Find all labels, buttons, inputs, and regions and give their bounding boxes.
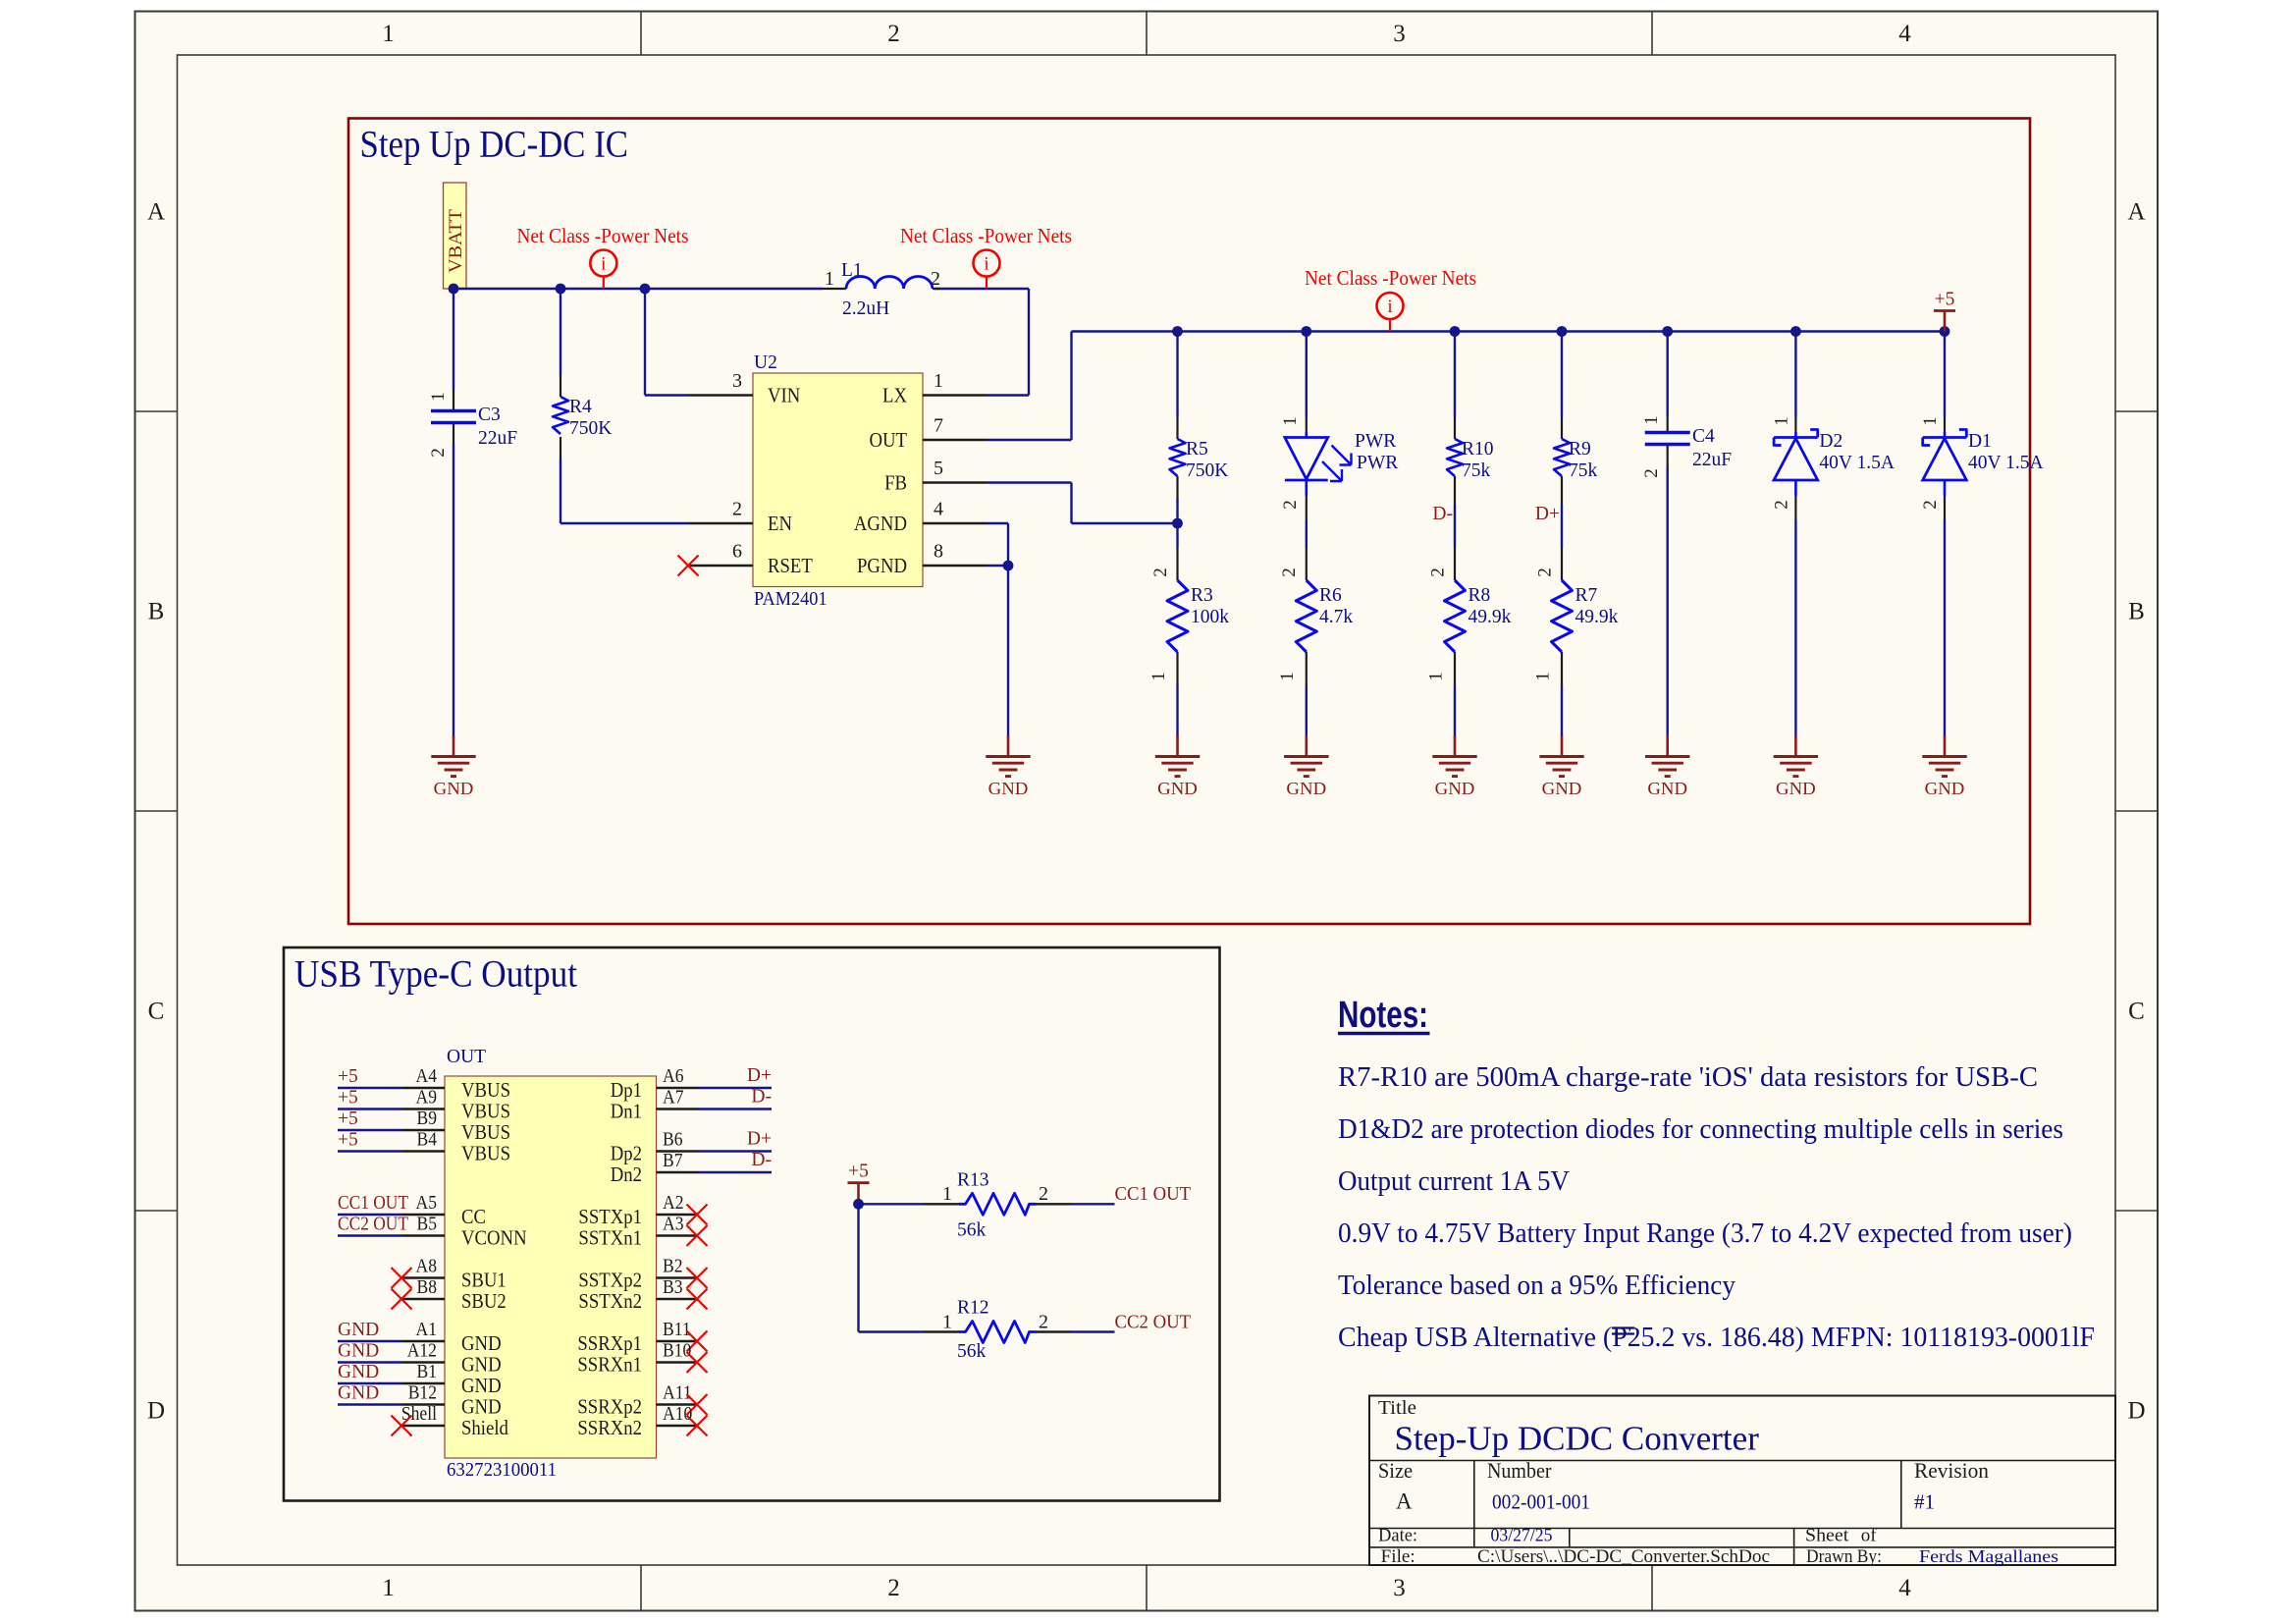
USB pin A3 SSTXn1 (578, 1214, 707, 1250)
svg-text:03/27/25: 03/27/25 (1491, 1526, 1553, 1546)
svg-text:2: 2 (1039, 1312, 1048, 1333)
svg-text:R12: R12 (957, 1298, 989, 1319)
svg-text:B4: B4 (417, 1129, 438, 1151)
svg-text:1: 1 (825, 268, 834, 290)
svg-text:EN: EN (768, 512, 792, 535)
svg-text:40V 1.5A: 40V 1.5A (1819, 453, 1895, 473)
svg-text:4: 4 (1898, 21, 1911, 47)
svg-text:GND: GND (461, 1374, 502, 1397)
svg-text:4.7k: 4.7k (1319, 607, 1353, 627)
svg-text:GND: GND (338, 1383, 379, 1404)
svg-text:40V 1.5A: 40V 1.5A (1968, 453, 2044, 473)
svg-text:D2: D2 (1819, 431, 1842, 452)
svg-text:6: 6 (732, 541, 742, 563)
svg-text:SSTXp2: SSTXp2 (578, 1269, 642, 1292)
svg-text:A12: A12 (407, 1340, 437, 1362)
svg-text:R10: R10 (1462, 439, 1494, 460)
svg-text:3: 3 (732, 370, 742, 392)
svg-text:22uF: 22uF (478, 428, 517, 449)
section box Step Up DC-DC IC (348, 119, 2030, 925)
capacitor C4 (1641, 415, 1732, 478)
svg-text:2: 2 (887, 21, 900, 47)
svg-text:2: 2 (931, 268, 940, 290)
svg-text:R3: R3 (1191, 585, 1213, 606)
svg-text:Net Class -Power Nets: Net Class -Power Nets (1305, 266, 1476, 290)
wire R7 to GND (1561, 684, 1563, 737)
ground for R6 (1284, 736, 1328, 799)
svg-text:GND: GND (338, 1320, 379, 1340)
USB pin A1 GND (338, 1319, 502, 1355)
svg-text:8: 8 (934, 541, 943, 563)
svg-text:RSET: RSET (768, 554, 813, 577)
svg-text:SSTXn1: SSTXn1 (578, 1226, 642, 1250)
ground for R8 (1432, 736, 1476, 799)
USB pin A10 SSRXn2 (577, 1403, 707, 1439)
wire VIN branch (645, 289, 689, 396)
svg-text:1: 1 (1426, 672, 1447, 681)
svg-text:A6: A6 (663, 1065, 684, 1087)
resistor R13 (924, 1170, 1071, 1241)
U2 pin 5 FB (923, 481, 987, 483)
svg-text:4: 4 (934, 499, 943, 520)
svg-text:R7: R7 (1575, 585, 1598, 606)
svg-text:GND: GND (1157, 779, 1198, 798)
ground for D1 (1922, 736, 1966, 799)
USB pin Shell Shield (392, 1403, 509, 1439)
wire LX to L1 (987, 394, 1029, 396)
U2 pin 4 AGND (923, 522, 987, 524)
svg-text:D-: D- (751, 1087, 772, 1108)
svg-text:2: 2 (1280, 500, 1301, 510)
svg-text:Date:: Date: (1378, 1527, 1417, 1546)
svg-text:C: C (148, 999, 165, 1025)
svg-text:i: i (601, 254, 606, 275)
svg-text:SSTXp1: SSTXp1 (578, 1205, 642, 1228)
wire LED to R6 (1306, 520, 1308, 548)
svg-text:D1: D1 (1968, 431, 1992, 452)
svg-text:1: 1 (942, 1183, 952, 1205)
svg-text:SBU2: SBU2 (461, 1289, 507, 1313)
svg-text:C3: C3 (478, 405, 501, 425)
diode D1 (1920, 332, 2044, 521)
svg-text:GND: GND (461, 1331, 502, 1355)
svg-text:750K: 750K (569, 418, 612, 439)
svg-text:D+: D+ (747, 1129, 772, 1150)
USB pin B7 Dn2 (611, 1150, 772, 1186)
IC U2 PAM2401 (678, 352, 988, 610)
svg-text:1: 1 (942, 1312, 952, 1333)
svg-text:C: C (2128, 999, 2145, 1025)
capacitor C3 (428, 390, 517, 458)
junction VIN branch (640, 284, 651, 295)
svg-text:GND: GND (461, 1395, 502, 1419)
USB pin B11 SSRXp1 (577, 1319, 707, 1355)
wire bus to C4 (1666, 332, 1668, 417)
svg-text:Net Class -Power Nets: Net Class -Power Nets (517, 224, 689, 247)
svg-text:Title: Title (1378, 1397, 1416, 1419)
wire R4 branch to EN (561, 289, 689, 523)
USB pin A9 VBUS (338, 1087, 510, 1123)
junction at VBATT pin (449, 284, 459, 295)
svg-text:FB: FB (884, 471, 907, 495)
resistor R6 (1277, 548, 1353, 684)
wire +5 to R13/R12 (859, 1204, 925, 1331)
svg-text:CC: CC (461, 1205, 486, 1228)
svg-text:56k: 56k (957, 1220, 987, 1241)
U2 pin 7 OUT (923, 439, 987, 441)
svg-text:1: 1 (1920, 416, 1941, 426)
svg-text:SSTXn2: SSTXn2 (578, 1289, 642, 1313)
LED PWR (1280, 416, 1398, 520)
svg-text:B10: B10 (663, 1340, 691, 1362)
svg-text:OUT: OUT (870, 428, 908, 452)
svg-text:USB Type-C Output: USB Type-C Output (294, 952, 577, 996)
svg-text:R4: R4 (569, 397, 592, 417)
svg-text:VCONN: VCONN (461, 1226, 527, 1250)
svg-text:VBUS: VBUS (461, 1142, 510, 1165)
wire C3 to GND (453, 289, 454, 737)
U2 pin 1 LX (923, 394, 987, 396)
resistor R7 (1533, 548, 1619, 684)
svg-text:R8: R8 (1468, 585, 1491, 606)
svg-text:1: 1 (428, 392, 449, 402)
svg-text:1: 1 (1771, 416, 1791, 426)
svg-text:+5: +5 (1935, 290, 1955, 310)
resistor R3 (1148, 548, 1229, 684)
ground for R7 (1539, 736, 1583, 799)
svg-text:D: D (2127, 1398, 2145, 1425)
svg-text:75k: 75k (1569, 460, 1598, 481)
svg-text:Ferds Magallanes: Ferds Magallanes (1919, 1546, 2058, 1566)
svg-text:GND: GND (1925, 779, 1965, 798)
USB pin B1 GND (338, 1361, 502, 1397)
wire bus to R9 (1561, 332, 1563, 418)
svg-text:56k: 56k (957, 1341, 987, 1362)
USB pin B10 SSRXn1 (577, 1340, 707, 1377)
USB pin A7 Dn1 (611, 1087, 772, 1123)
resistor R10 (1447, 417, 1494, 505)
wire R12 to CC2 OUT (1071, 1330, 1115, 1332)
svg-text:+5: +5 (338, 1066, 358, 1087)
svg-text:002-001-001: 002-001-001 (1492, 1490, 1590, 1514)
svg-text:SSRXn1: SSRXn1 (577, 1353, 642, 1377)
svg-text:Dp2: Dp2 (611, 1142, 642, 1165)
svg-text:B9: B9 (417, 1108, 438, 1129)
inductor L1 (823, 260, 940, 319)
svg-text:75k: 75k (1462, 460, 1491, 481)
svg-text:A2: A2 (663, 1192, 684, 1214)
svg-text:49.9k: 49.9k (1468, 607, 1512, 627)
wire D2 to GND (1794, 520, 1796, 737)
junction +5/R13/R12 (853, 1199, 864, 1210)
svg-text:VBATT: VBATT (446, 209, 466, 273)
USB pin B5 VCONN (338, 1214, 527, 1250)
svg-text:A8: A8 (416, 1256, 438, 1277)
svg-text:i: i (984, 254, 988, 275)
svg-text:2: 2 (1920, 500, 1941, 510)
wire R9 to R7 (1561, 505, 1563, 548)
peso sign strikes (1612, 1328, 1634, 1334)
svg-text:B: B (148, 599, 165, 625)
junction FB/R5/R3 (1172, 518, 1183, 529)
svg-text:GND: GND (1647, 779, 1687, 798)
wire R13 to CC1 OUT (1071, 1203, 1115, 1205)
svg-text:1: 1 (1280, 416, 1301, 426)
U2 pin 3 VIN (689, 394, 753, 396)
title block (1369, 1396, 2115, 1568)
svg-text:D-: D- (1432, 504, 1453, 524)
svg-text:GND: GND (1542, 779, 1582, 798)
junction bus/LED (1301, 326, 1311, 337)
svg-text:Size: Size (1378, 1458, 1413, 1483)
wire VBATT bus (454, 289, 1029, 396)
USB pin A5 CC (338, 1192, 486, 1228)
svg-text:B1: B1 (417, 1361, 438, 1382)
svg-text:2: 2 (428, 448, 449, 458)
wire R6 to GND (1306, 684, 1308, 737)
wire R3 to GND (1176, 684, 1178, 737)
junction bus/R5 (1172, 326, 1183, 337)
junction bus/D2 (1790, 326, 1801, 337)
svg-text:Drawn By:: Drawn By: (1806, 1546, 1882, 1567)
svg-text:PAM2401: PAM2401 (754, 589, 828, 610)
svg-text:Number: Number (1487, 1458, 1552, 1483)
junction bus/C4 (1662, 326, 1673, 337)
net class directive 2 (900, 224, 1072, 289)
svg-text:GND: GND (988, 779, 1029, 798)
svg-text:GND: GND (461, 1353, 502, 1377)
wire D1 to GND (1944, 520, 1946, 737)
resistor R8 (1426, 548, 1512, 684)
svg-text:SSRXn2: SSRXn2 (577, 1416, 642, 1439)
resistor R9 (1554, 417, 1598, 505)
svg-text:22uF: 22uF (1692, 450, 1732, 470)
power port VBATT (444, 183, 467, 289)
svg-text:+5: +5 (338, 1088, 358, 1109)
USB pin A2 SSTXp1 (578, 1192, 707, 1228)
USB pin A11 SSRXp2 (577, 1382, 707, 1419)
svg-text:Sheet: Sheet (1805, 1526, 1849, 1546)
resistor R4 (553, 375, 612, 459)
svg-text:A7: A7 (663, 1087, 684, 1109)
svg-text:R9: R9 (1569, 439, 1591, 460)
power +5 top (1934, 290, 1955, 332)
svg-text:PWR: PWR (1357, 453, 1398, 473)
svg-text:VBUS: VBUS (461, 1100, 510, 1123)
svg-text:LX: LX (882, 384, 907, 407)
svg-text:Dn2: Dn2 (611, 1163, 642, 1186)
resistor R12 (924, 1298, 1071, 1363)
svg-text:3: 3 (1393, 1575, 1406, 1601)
svg-text:D1&D2 are protection diodes fo: D1&D2 are protection diodes for connecti… (1338, 1114, 2063, 1145)
svg-text:750K: 750K (1186, 460, 1228, 481)
svg-text:49.9k: 49.9k (1575, 607, 1619, 627)
svg-text:D: D (147, 1398, 165, 1425)
svg-text:100k: 100k (1191, 607, 1229, 627)
svg-text:2: 2 (1535, 568, 1556, 577)
U2 pin 6 RSET (689, 565, 753, 567)
power +5 for CC resistors (848, 1162, 870, 1205)
svg-text:2: 2 (1039, 1183, 1048, 1205)
svg-text:GND: GND (1286, 779, 1326, 798)
svg-text:AGND: AGND (854, 512, 907, 535)
svg-text:D-: D- (751, 1150, 772, 1170)
junction bus/R9 (1557, 326, 1568, 337)
svg-text:SSRXp1: SSRXp1 (577, 1331, 642, 1355)
svg-text:VBUS: VBUS (461, 1078, 510, 1102)
svg-text:Tolerance based on a 95% Effic: Tolerance based on a 95% Efficiency (1338, 1271, 1735, 1301)
svg-text:2.2uH: 2.2uH (842, 298, 889, 319)
svg-text:2: 2 (1150, 568, 1171, 577)
svg-text:A4: A4 (416, 1065, 438, 1087)
USB pin B9 VBUS (338, 1108, 510, 1144)
wire R10 to R8 (1454, 505, 1456, 548)
U2 pin 2 EN (689, 522, 753, 524)
USB pin B3 SSTXn2 (578, 1276, 707, 1313)
wire OUT to +5 bus (987, 332, 1072, 441)
svg-text:Dn1: Dn1 (611, 1100, 642, 1123)
wire AGND to PGND (987, 523, 1008, 737)
svg-text:B2: B2 (663, 1256, 683, 1277)
USB connector 632723100011 (445, 1047, 657, 1481)
wire bus to LED (1306, 332, 1308, 418)
svg-text:Step Up DC-DC IC: Step Up DC-DC IC (360, 123, 629, 166)
svg-text:1: 1 (1641, 415, 1662, 425)
svg-text:C:\Users\..\DC-DC_Converter.Sc: C:\Users\..\DC-DC_Converter.SchDoc (1477, 1546, 1770, 1567)
net class directive 3 (1305, 266, 1476, 332)
svg-text:B7: B7 (663, 1150, 683, 1171)
svg-text:VBUS: VBUS (461, 1120, 510, 1144)
svg-text:0.9V to 4.75V Battery Input Ra: 0.9V to 4.75V Battery Input Range (3.7 t… (1338, 1218, 2072, 1249)
svg-text:1: 1 (382, 21, 395, 47)
svg-text:D+: D+ (747, 1065, 772, 1086)
svg-text:SSRXp2: SSRXp2 (577, 1395, 642, 1419)
svg-text:1: 1 (1148, 672, 1169, 681)
svg-text:i: i (1387, 297, 1392, 317)
svg-text:1: 1 (934, 370, 943, 392)
svg-text:B8: B8 (417, 1276, 438, 1298)
svg-text:+5: +5 (338, 1130, 358, 1151)
svg-text:B12: B12 (408, 1382, 437, 1404)
svg-text:of: of (1861, 1526, 1878, 1546)
svg-text:B11: B11 (663, 1319, 691, 1340)
svg-text:A: A (2127, 199, 2145, 226)
diode D2 (1771, 332, 1895, 521)
junction AGND/PGND (1003, 561, 1014, 571)
ground for D2 (1774, 736, 1818, 799)
junction bus/R10 (1450, 326, 1461, 337)
svg-text:A10: A10 (663, 1403, 692, 1425)
junction R4 top (556, 284, 566, 295)
svg-text:Shield: Shield (461, 1416, 508, 1439)
svg-text:2: 2 (1641, 468, 1662, 478)
svg-text:GND: GND (1776, 779, 1816, 798)
svg-text:GND: GND (338, 1341, 379, 1362)
junction bus/D1 (1940, 326, 1950, 337)
svg-text:B5: B5 (417, 1214, 438, 1235)
svg-text:A5: A5 (416, 1192, 438, 1214)
svg-text:Dp1: Dp1 (611, 1078, 642, 1102)
wire bus to R5 (1176, 332, 1178, 418)
svg-text:B: B (2128, 599, 2145, 625)
svg-text:3: 3 (1393, 21, 1406, 47)
USB pin B4 VBUS (338, 1129, 510, 1165)
section box USB Type-C Output (284, 947, 1220, 1501)
svg-text:Cheap USB Alternative (P25.2 v: Cheap USB Alternative (P25.2 vs. 186.48)… (1338, 1323, 2095, 1353)
svg-text:Output current 1A 5V: Output current 1A 5V (1338, 1166, 1570, 1197)
svg-text:GND: GND (434, 779, 474, 798)
svg-text:Step-Up DCDC Converter: Step-Up DCDC Converter (1395, 1420, 1760, 1458)
wire C4 to GND (1666, 466, 1668, 737)
svg-text:U2: U2 (754, 352, 777, 373)
svg-text:R6: R6 (1319, 585, 1342, 606)
wire R5 to R3 (1176, 498, 1178, 548)
svg-text:2: 2 (1771, 500, 1791, 510)
notes heading (1338, 995, 1430, 1036)
ground for C4 (1645, 736, 1689, 799)
USB pin B6 Dp2 (611, 1129, 772, 1165)
ground for R3 (1155, 736, 1200, 799)
svg-text:D+: D+ (1535, 504, 1560, 524)
svg-text:1: 1 (1277, 672, 1298, 681)
svg-text:2: 2 (732, 499, 742, 520)
svg-text:CC2 OUT: CC2 OUT (338, 1215, 408, 1235)
svg-text:CC1 OUT: CC1 OUT (1115, 1184, 1192, 1205)
svg-text:SBU1: SBU1 (461, 1269, 507, 1292)
svg-text:PWR: PWR (1355, 431, 1396, 452)
svg-text:GND: GND (1435, 779, 1475, 798)
svg-text:A: A (1396, 1489, 1413, 1514)
svg-text:File:: File: (1381, 1547, 1415, 1567)
wire R8 to GND (1454, 684, 1456, 737)
svg-text:A3: A3 (663, 1214, 684, 1235)
svg-text:+5: +5 (848, 1162, 869, 1182)
svg-text:Revision: Revision (1914, 1458, 1989, 1483)
svg-text:R7-R10 are 500mA charge-rate ': R7-R10 are 500mA charge-rate 'iOS' data … (1338, 1062, 2038, 1093)
wire bus to R10 (1454, 332, 1456, 418)
svg-text:#1: #1 (1914, 1490, 1935, 1514)
ground for C3 (431, 736, 475, 799)
U2 pin 8 PGND (923, 565, 987, 567)
svg-text:1: 1 (382, 1575, 395, 1601)
svg-text:A1: A1 (416, 1319, 438, 1340)
wire FB to divider (987, 483, 1178, 524)
svg-text:GND: GND (338, 1362, 379, 1382)
svg-text:PGND: PGND (857, 554, 907, 577)
svg-text:B6: B6 (663, 1129, 683, 1151)
USB pin B12 GND (338, 1382, 502, 1419)
svg-text:A9: A9 (416, 1087, 438, 1109)
svg-text:OUT: OUT (447, 1047, 486, 1067)
net class directive 1 (517, 224, 689, 289)
svg-text:2: 2 (887, 1575, 900, 1601)
svg-text:A11: A11 (663, 1382, 692, 1404)
svg-text:+5: +5 (338, 1109, 358, 1129)
svg-text:Net Class -Power Nets: Net Class -Power Nets (900, 224, 1072, 247)
USB pin A6 Dp1 (611, 1065, 772, 1102)
svg-text:CC1 OUT: CC1 OUT (338, 1193, 408, 1214)
svg-text:4: 4 (1898, 1575, 1911, 1601)
resistor R5 (1170, 417, 1229, 498)
svg-text:2: 2 (1428, 568, 1449, 577)
svg-text:632723100011: 632723100011 (447, 1460, 557, 1481)
svg-text:C4: C4 (1692, 426, 1715, 447)
wire +5 output bus (1072, 330, 1946, 332)
svg-text:CC2 OUT: CC2 OUT (1115, 1313, 1192, 1333)
svg-text:1: 1 (1533, 672, 1554, 681)
svg-text:2: 2 (1279, 568, 1300, 577)
svg-text:R13: R13 (957, 1170, 989, 1191)
